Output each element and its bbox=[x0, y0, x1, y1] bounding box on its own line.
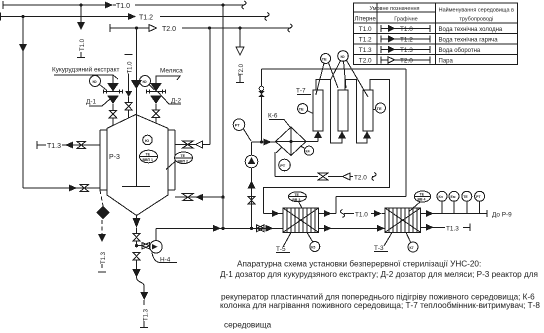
svg-text:ТЕ: ТЕ bbox=[377, 106, 382, 111]
svg-text:ТЕ: ТЕ bbox=[146, 153, 151, 157]
svg-text:Т1.0: Т1.0 bbox=[128, 61, 134, 74]
svg-text:Т-3: Т-3 bbox=[374, 245, 384, 252]
label D-1 bbox=[86, 99, 110, 107]
pump N-5 vertical bbox=[245, 142, 258, 228]
svg-text:ТЕ: ТЕ bbox=[294, 193, 299, 197]
svg-text:Д-2: Д-2 bbox=[171, 98, 181, 105]
instrument Kn bbox=[437, 191, 447, 213]
svg-text:ВВ 4: ВВ 4 bbox=[418, 198, 426, 202]
svg-text:ТЕ: ТЕ bbox=[299, 107, 304, 112]
svg-text:Т2.0: Т2.0 bbox=[239, 63, 245, 76]
svg-text:Т1.0: Т1.0 bbox=[359, 26, 372, 33]
table row T1.2 graphic bbox=[381, 35, 430, 43]
svg-text:Т1.3: Т1.3 bbox=[446, 225, 459, 232]
table header naimenuvannia bbox=[439, 7, 514, 23]
label N-4 bbox=[152, 253, 177, 264]
svg-text:Т1.3: Т1.3 bbox=[47, 143, 61, 150]
svg-text:Т2.0: Т2.0 bbox=[359, 58, 372, 65]
wire pump to K-6 bbox=[252, 139, 276, 146]
instrument TE col3 bbox=[373, 103, 386, 113]
svg-text:Т2.0: Т2.0 bbox=[354, 175, 367, 182]
instrument TE VV3 bbox=[288, 192, 306, 208]
svg-text:Ю: Ю bbox=[93, 79, 97, 84]
svg-text:РТ: РТ bbox=[280, 163, 286, 168]
reactor left jacket bbox=[100, 130, 107, 190]
svg-text:Ю: Ю bbox=[145, 138, 149, 143]
reactor P-3 vessel bbox=[107, 115, 168, 216]
wire T1.0 header line bbox=[3, 1, 246, 9]
instrument Yu top bbox=[331, 51, 368, 97]
valve to pump N-4 bbox=[137, 243, 150, 249]
svg-text:ТЕ: ТЕ bbox=[463, 195, 468, 199]
holding column T-7 no.1 bbox=[313, 90, 323, 131]
svg-text:ТЕ: ТЕ bbox=[181, 154, 186, 158]
instrument K7 bbox=[406, 233, 418, 253]
svg-text:Літерне: Літерне bbox=[355, 17, 377, 23]
label T-7 bbox=[296, 88, 311, 95]
instrument Yu in reactor bbox=[143, 135, 153, 145]
svg-text:Т-7: Т-7 bbox=[296, 88, 306, 95]
wire stub T2.0 down at x240 bbox=[236, 28, 245, 83]
wire T1.0 feed to reactor at x130 bbox=[125, 55, 134, 119]
svg-text:ТЕ: ТЕ bbox=[322, 57, 327, 62]
instrument Yu right bbox=[140, 76, 155, 91]
wire stub T1.0 down at x81 bbox=[77, 5, 86, 58]
svg-text:Р-3: Р-3 bbox=[109, 154, 120, 161]
wire molasses feed line bbox=[156, 76, 180, 83]
svg-text:Найменування середовища в: Найменування середовища в bbox=[439, 7, 514, 14]
svg-text:Меляса: Меляса bbox=[160, 68, 183, 75]
svg-text:Д-1 дозатор для кукурудзяного: Д-1 дозатор для кукурудзяного екстракту;… bbox=[220, 270, 538, 279]
svg-text:Т1.3: Т1.3 bbox=[359, 47, 372, 54]
wire serpentine col1 to col2 bbox=[316, 80, 346, 144]
reactor agitator shaft bbox=[122, 26, 150, 186]
svg-text:Д-1: Д-1 bbox=[86, 99, 96, 106]
legend table frame bbox=[354, 3, 518, 65]
wire recirculation loop left riser bbox=[258, 69, 265, 142]
instrument TE VV4 bbox=[409, 191, 431, 212]
svg-text:Кукурудзяний екстракт: Кукурудзяний екстракт bbox=[52, 66, 119, 74]
svg-text:ВВП 2: ВВП 2 bbox=[178, 159, 189, 163]
label D-2 bbox=[158, 92, 181, 105]
svg-text:К-6: К-6 bbox=[268, 113, 278, 120]
instrument K5 bbox=[307, 233, 320, 252]
svg-text:Т1.2: Т1.2 bbox=[359, 37, 372, 44]
wire reactor drain with trap bbox=[132, 252, 149, 328]
svg-text:Графічне: Графічне bbox=[394, 17, 418, 23]
svg-text:РТ: РТ bbox=[235, 123, 241, 128]
svg-text:К4: К4 bbox=[306, 150, 310, 154]
label T-3 bbox=[374, 233, 392, 253]
wire T-5 upper outlet to loop bbox=[319, 210, 337, 217]
label K-6 bbox=[268, 113, 290, 128]
heat exchanger T-5 bbox=[283, 208, 319, 232]
instrument K4 bbox=[301, 146, 314, 155]
svg-text:Ем: Ем bbox=[451, 195, 456, 199]
svg-text:Т1.0: Т1.0 bbox=[80, 38, 86, 51]
wire T-5 lower outlet to T-3 bbox=[319, 225, 386, 232]
table row T1.3 graphic bbox=[381, 46, 430, 54]
instrument TE out bbox=[462, 191, 472, 213]
wire dashed sample line T1.3 bbox=[96, 190, 110, 272]
wire K-6 to column 1 bbox=[306, 131, 322, 142]
wire column 3 outlet to recuperator bbox=[264, 80, 390, 218]
table row T1.0 graphic bbox=[381, 25, 430, 33]
instrument TE col1 bbox=[298, 104, 313, 114]
svg-text:Ю: Ю bbox=[341, 54, 345, 59]
svg-text:Ю: Ю bbox=[143, 79, 147, 84]
wire T1.0 to T-3 bbox=[341, 210, 386, 219]
heat exchanger T-3 bbox=[385, 208, 421, 232]
svg-text:Т1.0: Т1.0 bbox=[116, 3, 130, 10]
svg-text:Вода оборотна: Вода оборотна bbox=[439, 48, 481, 54]
pump N-4 bbox=[150, 241, 162, 253]
instrument PT at pump bbox=[233, 119, 251, 141]
table row T2.0 graphic bbox=[381, 56, 430, 64]
wire T1.2 header line bbox=[0, 13, 269, 21]
wire reactor bottom outlet bbox=[133, 216, 141, 248]
wire extract feed line bbox=[54, 75, 118, 83]
wire T1.3 jacket outlet left bbox=[37, 141, 100, 150]
svg-text:колонка для нагрівання поживно: колонка для нагрівання поживного середов… bbox=[220, 301, 540, 310]
wire pump discharge to T-5 bbox=[156, 225, 283, 241]
wire T1.3 outlet bbox=[421, 224, 471, 233]
svg-text:До Р-9: До Р-9 bbox=[492, 212, 512, 219]
svg-text:Пара: Пара bbox=[439, 59, 454, 65]
column K-6 bbox=[276, 127, 307, 156]
dosing device D-2 bbox=[146, 83, 166, 124]
svg-text:Вода технічна гаряча: Вода технічна гаряча bbox=[439, 38, 499, 44]
svg-text:трубопроводі: трубопроводі bbox=[459, 17, 493, 23]
wire T2.0 condensate return bbox=[275, 173, 376, 182]
valve on T1.0 reactor feed bbox=[125, 103, 132, 111]
dosing device D-1 bbox=[103, 83, 123, 126]
svg-text:ВВ 3: ВВ 3 bbox=[292, 198, 300, 202]
instrument PT out bbox=[475, 191, 485, 213]
wire hot water in right jacket from T1.0 bbox=[175, 5, 225, 228]
instrument TE VVP2 bbox=[166, 152, 193, 170]
svg-text:К5: К5 bbox=[311, 245, 315, 249]
instrument PT2 bbox=[275, 148, 290, 177]
svg-text:Т1.2: Т1.2 bbox=[400, 37, 413, 44]
svg-text:Т1.0: Т1.0 bbox=[355, 212, 368, 219]
wire recirculation loop top bbox=[262, 68, 407, 70]
svg-text:Т1.3: Т1.3 bbox=[400, 47, 413, 54]
wire recirculation loop right riser bbox=[336, 69, 406, 214]
svg-text:Умовне позначення: Умовне позначення bbox=[369, 6, 419, 12]
instrument Em bbox=[449, 191, 459, 213]
holding column T-7 no.3 bbox=[363, 90, 373, 131]
reactor right jacket bbox=[168, 130, 175, 190]
instrument Yu left bbox=[90, 76, 108, 91]
svg-text:Т2.0: Т2.0 bbox=[162, 26, 176, 33]
instrument TE top bbox=[316, 54, 338, 96]
svg-text:Т1.3: Т1.3 bbox=[143, 308, 149, 321]
svg-text:К7: К7 bbox=[410, 246, 414, 250]
svg-text:Т-5: Т-5 bbox=[276, 246, 286, 253]
svg-text:ТЕ: ТЕ bbox=[420, 193, 425, 197]
wire T2.0 header line bbox=[110, 24, 292, 32]
wire T-3 outlet to R-9 bbox=[421, 210, 513, 219]
svg-text:Вода технічна холодна: Вода технічна холодна bbox=[439, 27, 503, 33]
svg-text:Т1.0: Т1.0 bbox=[400, 26, 413, 33]
svg-text:Т2.0: Т2.0 bbox=[400, 58, 413, 65]
holding column T-7 no.2 bbox=[338, 90, 348, 131]
wire cooling water in left jacket bbox=[19, 17, 100, 192]
svg-text:Т1.3: Т1.3 bbox=[101, 251, 107, 264]
wire serpentine col2 to col3 bbox=[345, 80, 371, 144]
svg-text:середовища: середовища bbox=[224, 320, 272, 329]
svg-text:ВВП 1: ВВП 1 bbox=[143, 158, 154, 162]
instrument TE VVP1 bbox=[140, 150, 158, 163]
svg-text:Н-4: Н-4 bbox=[160, 257, 171, 264]
svg-text:Апаратурна схема установки без: Апаратурна схема установки безперервної … bbox=[237, 259, 481, 268]
label T-5 bbox=[276, 233, 291, 254]
svg-text:Кн: Кн bbox=[439, 195, 443, 199]
svg-text:Т1.2: Т1.2 bbox=[139, 15, 153, 22]
wire jacket outlet right to riser bbox=[175, 28, 210, 148]
